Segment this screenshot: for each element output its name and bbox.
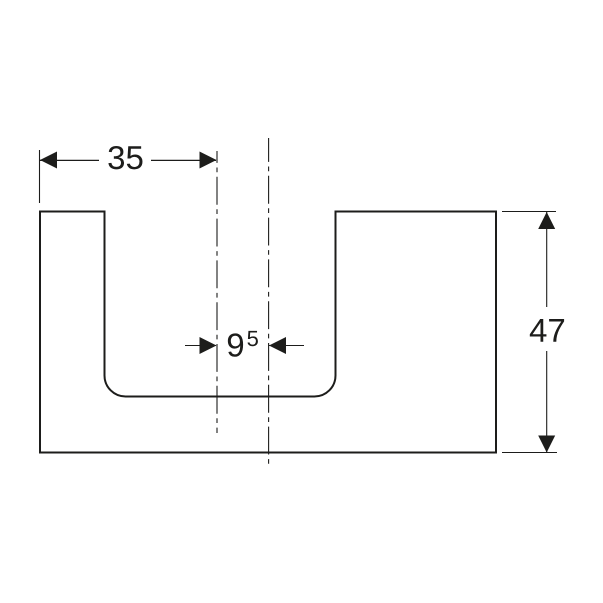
label 47 xyxy=(530,319,564,342)
arrowhead 9.5 left (pointing right) xyxy=(200,337,217,354)
centerline left (cut-out axis) xyxy=(216,151,218,433)
extension line bottom right for dim 47 xyxy=(502,452,557,454)
dimension line 35 (right segment) xyxy=(151,159,216,161)
arrowhead 47 bottom (pointing down) xyxy=(538,436,555,453)
dimension line 9.5 left tail xyxy=(185,345,216,347)
arrowhead 47 top (pointing up) xyxy=(538,212,555,229)
extension line left for dim 35 xyxy=(39,150,41,203)
extension line top right for dim 47 xyxy=(502,211,556,213)
dimension line 47 (lower segment) xyxy=(546,351,548,452)
label 9 superscript 5 xyxy=(228,331,258,357)
dimension line 47 (upper segment) xyxy=(546,212,548,307)
dimension line 9.5 right tail xyxy=(269,345,304,347)
label 35 xyxy=(108,146,142,169)
profile outline xyxy=(40,212,496,453)
centerline right (product axis) xyxy=(268,138,270,464)
arrowhead 35 left xyxy=(40,152,57,169)
arrowhead 9.5 right (pointing left) xyxy=(269,337,286,354)
arrowhead 35 right xyxy=(200,152,217,169)
dimension line 35 (left segment) xyxy=(40,159,99,161)
